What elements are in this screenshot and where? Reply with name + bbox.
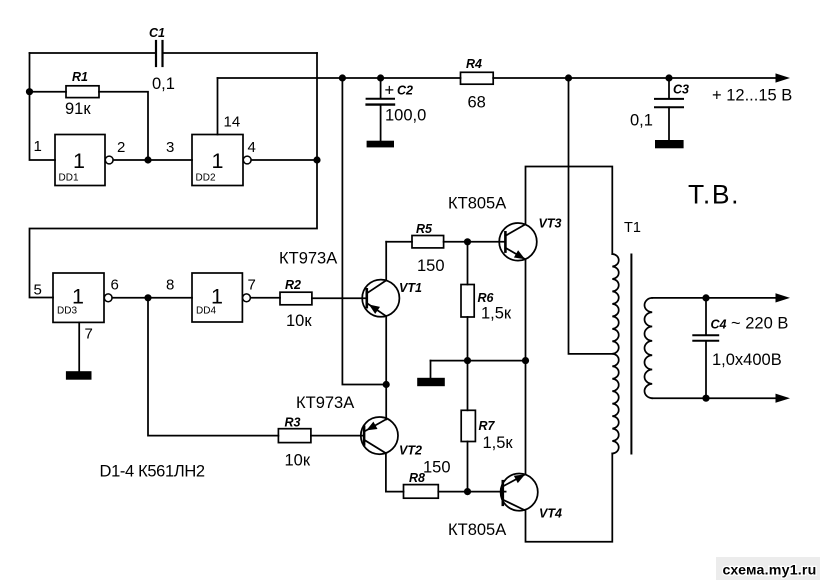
svg-text:VT3: VT3 — [539, 217, 562, 231]
svg-text:C2: C2 — [397, 84, 413, 98]
svg-text:4: 4 — [248, 139, 256, 156]
svg-text:10к: 10к — [285, 452, 311, 470]
svg-text:0,1: 0,1 — [152, 75, 175, 93]
svg-text:R1: R1 — [72, 70, 88, 84]
svg-text:Т.В.: Т.В. — [688, 180, 740, 210]
svg-text:68: 68 — [468, 94, 486, 112]
svg-text:VT1: VT1 — [399, 281, 422, 295]
svg-text:КТ973А: КТ973А — [296, 394, 354, 412]
svg-text:1,0x400В: 1,0x400В — [712, 351, 782, 369]
svg-text:91к: 91к — [65, 100, 91, 118]
svg-text:DD2: DD2 — [196, 173, 216, 184]
svg-text:C1: C1 — [149, 26, 165, 40]
svg-text:6: 6 — [111, 277, 119, 294]
svg-text:1: 1 — [73, 149, 85, 173]
svg-text:R6: R6 — [478, 291, 495, 305]
svg-text:1: 1 — [34, 138, 42, 155]
svg-text:VT4: VT4 — [539, 507, 562, 521]
svg-text:+: + — [385, 82, 395, 100]
svg-text:R7: R7 — [479, 419, 496, 433]
svg-text:C3: C3 — [673, 83, 689, 97]
svg-text:VT2: VT2 — [399, 444, 422, 458]
svg-text:КТ805А: КТ805А — [448, 195, 506, 213]
svg-text:1: 1 — [212, 149, 224, 173]
svg-text:10к: 10к — [286, 312, 312, 330]
svg-text:1,5к: 1,5к — [481, 305, 512, 323]
svg-text:1,5к: 1,5к — [483, 434, 514, 452]
svg-text:DD1: DD1 — [59, 173, 79, 184]
svg-text:0,1: 0,1 — [630, 112, 653, 130]
svg-text:150: 150 — [423, 459, 451, 477]
svg-text:T1: T1 — [624, 220, 641, 236]
svg-text:8: 8 — [166, 277, 174, 294]
svg-text:7: 7 — [248, 277, 256, 294]
svg-text:R5: R5 — [416, 222, 433, 236]
svg-text:150: 150 — [417, 257, 445, 275]
svg-text:схема.my1.ru: схема.my1.ru — [723, 563, 817, 579]
svg-text:КТ805А: КТ805А — [448, 521, 506, 539]
svg-text:2: 2 — [117, 139, 125, 156]
svg-text:R3: R3 — [285, 416, 301, 430]
svg-text:DD4: DD4 — [196, 306, 216, 317]
svg-text:100,0: 100,0 — [385, 107, 426, 125]
svg-text:+ 12...15 В: + 12...15 В — [712, 87, 792, 105]
svg-text:7: 7 — [85, 326, 93, 343]
svg-text:R2: R2 — [285, 278, 301, 292]
svg-text:3: 3 — [166, 139, 174, 156]
svg-text:~ 220 В: ~ 220 В — [731, 315, 788, 333]
svg-text:R4: R4 — [466, 57, 482, 71]
svg-text:5: 5 — [34, 282, 42, 299]
svg-text:14: 14 — [224, 114, 241, 131]
svg-text:DD3: DD3 — [57, 306, 77, 317]
svg-text:КТ973А: КТ973А — [279, 250, 337, 268]
svg-text:C4: C4 — [711, 318, 727, 332]
svg-text:D1-4 К561ЛН2: D1-4 К561ЛН2 — [100, 463, 205, 481]
